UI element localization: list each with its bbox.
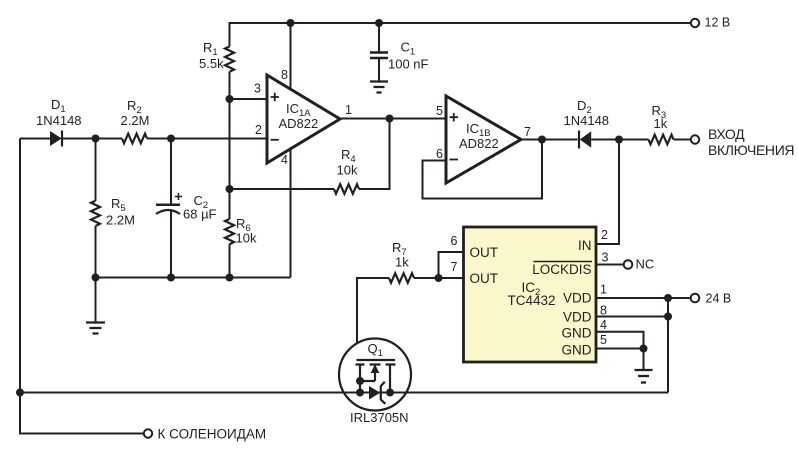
diode D2 1N4148 bbox=[564, 98, 610, 149]
svg-text:IN: IN bbox=[578, 238, 592, 253]
wire R2 to pin 2 bbox=[147, 138, 267, 140]
svg-text:100 nF: 100 nF bbox=[388, 57, 429, 72]
node R6 ground junction bbox=[226, 274, 234, 282]
wire pin 4 to ground rail bbox=[290, 148, 292, 278]
node pin3 junction bbox=[226, 95, 234, 103]
svg-text:IRL3705N: IRL3705N bbox=[350, 410, 409, 425]
resistor R6 bbox=[225, 189, 257, 278]
wire IN net vertical bbox=[596, 140, 619, 245]
transistor Q1 circle IRL3705N bbox=[339, 339, 411, 426]
op-amp U1A triangle IC1A bbox=[267, 75, 340, 163]
svg-text:1N4148: 1N4148 bbox=[36, 113, 82, 128]
pin label 1 bbox=[345, 103, 352, 117]
op-amp U1B triangle IC1B bbox=[446, 96, 521, 183]
ground IC2 bbox=[635, 349, 653, 383]
node Q1 source junction bbox=[356, 389, 364, 397]
svg-text:OUT: OUT bbox=[470, 245, 499, 260]
svg-text:LOCKDIS: LOCKDIS bbox=[532, 262, 591, 277]
svg-text:6: 6 bbox=[436, 147, 443, 161]
capacitor C1 bbox=[370, 23, 429, 81]
svg-text:2.2M: 2.2M bbox=[121, 113, 150, 128]
ground C1 bbox=[370, 82, 388, 93]
svg-text:10k: 10k bbox=[236, 231, 257, 246]
terminal К СОЛЕНОИДАМ bbox=[144, 427, 266, 442]
wire LOCKDIS to NC bbox=[596, 264, 624, 266]
wire D2 to R3 bbox=[591, 139, 648, 141]
pin label OUT 7 bbox=[451, 260, 499, 286]
wire IC1B pin6 feedback loop bbox=[423, 140, 543, 199]
pin label 2 bbox=[255, 123, 262, 137]
resistor R7 bbox=[389, 240, 414, 283]
pin label GND 4 bbox=[562, 318, 608, 341]
svg-text:VDD: VDD bbox=[563, 291, 592, 306]
node output7 feedback junction bbox=[538, 136, 546, 144]
svg-text:К СОЛЕНОИДАМ: К СОЛЕНОИДАМ bbox=[158, 427, 267, 442]
svg-text:ВХОД: ВХОД bbox=[708, 126, 745, 142]
pin label LOCKDIS 3 with overline bbox=[532, 250, 608, 277]
node R5 ground junction bbox=[92, 274, 100, 282]
svg-text:C1: C1 bbox=[401, 40, 416, 58]
svg-text:1: 1 bbox=[345, 103, 352, 117]
node output/R4 junction bbox=[386, 115, 394, 123]
pin label VDD 8 bbox=[563, 304, 607, 325]
svg-text:AD822: AD822 bbox=[279, 116, 319, 131]
terminal NC bbox=[624, 257, 655, 272]
terminal 12 V bbox=[691, 16, 730, 30]
node GND junction bbox=[640, 345, 648, 353]
resistor R5 bbox=[91, 139, 135, 278]
pin label IN 2 bbox=[578, 228, 608, 253]
svg-text:10k: 10k bbox=[337, 163, 358, 178]
svg-text:GND: GND bbox=[562, 326, 592, 341]
svg-text:3: 3 bbox=[254, 82, 261, 96]
svg-text:1k: 1k bbox=[654, 116, 668, 131]
svg-text:5.5k: 5.5k bbox=[199, 56, 224, 71]
node R2/C2 junction bbox=[167, 135, 175, 143]
wire IC1B output bbox=[521, 139, 578, 141]
pin label OUT 6 bbox=[451, 234, 499, 260]
resistor R3 bbox=[649, 103, 674, 144]
node C1 junction on 12V rail bbox=[375, 19, 383, 27]
svg-text:TC4432: TC4432 bbox=[508, 293, 556, 308]
wire lower rail pin3 net bbox=[230, 188, 335, 190]
svg-text:8: 8 bbox=[600, 304, 607, 318]
pin label GND 5 bbox=[562, 333, 608, 358]
svg-text:4: 4 bbox=[600, 318, 607, 332]
node VDD8 junction bbox=[664, 313, 672, 321]
node D1/R5 junction bbox=[92, 135, 100, 143]
svg-text:7: 7 bbox=[524, 125, 531, 139]
svg-text:2: 2 bbox=[601, 228, 608, 242]
pin label 6 bbox=[436, 147, 443, 161]
svg-text:OUT: OUT bbox=[470, 271, 499, 286]
svg-text:24 В: 24 В bbox=[706, 292, 732, 306]
capacitor C2 electrolytic bbox=[156, 139, 217, 278]
wire VDD1 to 24V bbox=[596, 297, 691, 299]
pin label 5 bbox=[436, 104, 443, 118]
svg-text:6: 6 bbox=[451, 234, 458, 248]
wire top 12V rail bbox=[230, 23, 691, 47]
wire pin 3 input bbox=[230, 98, 268, 100]
resistor R4 bbox=[334, 147, 359, 194]
svg-text:1k: 1k bbox=[395, 255, 409, 270]
svg-text:NC: NC bbox=[636, 257, 655, 272]
svg-text:12 В: 12 В bbox=[705, 16, 731, 30]
terminal 24 V bbox=[691, 292, 732, 306]
transistor Q1 internals bbox=[356, 360, 396, 404]
svg-text:8: 8 bbox=[281, 68, 288, 82]
node D2/R3/IN junction bbox=[615, 136, 623, 144]
wire IC1A output to IC1B pin5 bbox=[340, 118, 446, 120]
wire OUT6 jog bbox=[439, 252, 464, 278]
svg-text:VDD: VDD bbox=[563, 310, 592, 325]
pin label 7 bbox=[524, 125, 531, 139]
svg-text:1: 1 bbox=[600, 283, 607, 297]
pin label 8 bbox=[281, 68, 288, 82]
resistor R1 bbox=[199, 40, 234, 72]
wire main source-drain line bbox=[20, 392, 668, 394]
node lower rail R6 junction bbox=[226, 185, 234, 193]
wire R4 right to output bbox=[359, 119, 390, 190]
node Q1 body junction bbox=[356, 377, 364, 385]
node OUT junction bbox=[435, 274, 443, 282]
pin label 3 bbox=[254, 82, 261, 96]
wire pin 8 supply bbox=[290, 23, 292, 91]
wire VDD vertical to drain line bbox=[667, 298, 669, 393]
wire OUT7 to R7 bbox=[414, 277, 464, 279]
ground main bbox=[86, 278, 105, 334]
wire GND5 bbox=[596, 348, 644, 350]
node Q1 drain junction bbox=[386, 389, 394, 397]
node pin8 junction on 12V rail bbox=[287, 19, 295, 27]
wire R7 to gate bbox=[357, 278, 389, 360]
svg-text:GND: GND bbox=[562, 343, 592, 358]
pin label VDD 1 bbox=[563, 283, 607, 306]
svg-text:R5: R5 bbox=[111, 196, 126, 214]
pin label 4 bbox=[281, 153, 288, 167]
wire R3 to input terminal bbox=[674, 139, 691, 141]
svg-text:5: 5 bbox=[436, 104, 443, 118]
svg-text:ВКЛЮЧЕНИЯ: ВКЛЮЧЕНИЯ bbox=[708, 142, 794, 158]
wire ground rail bbox=[96, 277, 291, 279]
IC U2 TC4432 body bbox=[464, 227, 597, 362]
terminal ВХОД ВКЛЮЧЕНИЯ bbox=[691, 126, 794, 158]
wire left bus vertical bbox=[20, 139, 144, 434]
wire GND4 bbox=[596, 332, 644, 349]
wire D1 anode from left bus bbox=[20, 138, 50, 140]
resistor R2 bbox=[121, 98, 150, 143]
wire VDD8 bbox=[596, 316, 668, 318]
svg-text:3: 3 bbox=[602, 250, 609, 264]
svg-text:2.2M: 2.2M bbox=[106, 213, 135, 228]
svg-text:5: 5 bbox=[600, 333, 607, 347]
svg-text:1N4148: 1N4148 bbox=[564, 113, 610, 128]
svg-text:2: 2 bbox=[255, 123, 262, 137]
node left bus drain line junction bbox=[16, 389, 24, 397]
svg-text:4: 4 bbox=[281, 153, 288, 167]
svg-text:7: 7 bbox=[451, 260, 458, 274]
node C2 ground junction bbox=[167, 274, 175, 282]
node VDD1 junction bbox=[664, 294, 672, 302]
svg-text:68 µF: 68 µF bbox=[183, 207, 217, 222]
diode D1 1N4148 bbox=[36, 97, 82, 147]
wire D1 cathode to R2 bbox=[62, 138, 122, 140]
wire R1 bottom to lower rail bbox=[229, 72, 231, 189]
svg-text:AD822: AD822 bbox=[459, 136, 499, 151]
